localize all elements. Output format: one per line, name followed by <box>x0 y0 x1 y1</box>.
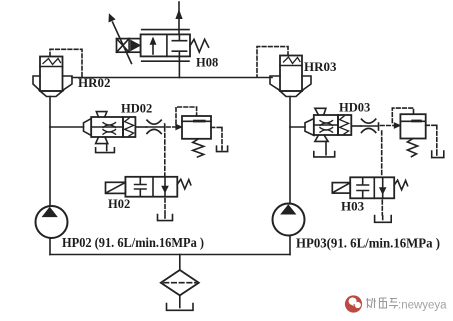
dashed pilot wire to relief box <box>167 126 177 128</box>
HD03 upper orifice arcs <box>320 121 333 126</box>
main tank <box>167 304 194 311</box>
relief valve HR03 pilot dashed line <box>257 47 288 77</box>
relief valve box (left circuit) <box>182 116 211 139</box>
svg-text:HD03: HD03 <box>339 101 370 115</box>
relief box drain dashed to tank <box>211 127 222 147</box>
relief valve box (right circuit) <box>400 114 425 138</box>
flow control HD03 body <box>314 115 338 135</box>
svg-text:H03: H03 <box>341 199 365 214</box>
HR02 spring chamber divider <box>40 66 63 68</box>
HD03 top lug <box>315 108 326 115</box>
H02 left position closed ports <box>135 177 146 197</box>
HR02 right wing <box>63 76 73 91</box>
wire branch to HD02 <box>50 126 84 128</box>
HR03 outlet funnel <box>280 91 302 97</box>
bottom rail wire <box>50 254 290 256</box>
HD03 bottom lug <box>315 135 328 141</box>
HD03 drain wire <box>325 141 327 154</box>
valve H08 right position closed port top <box>172 34 186 40</box>
dashed wire down to H02 <box>164 134 166 177</box>
HD02 bottom lug <box>96 137 108 144</box>
valve H08 left position flow arrow <box>152 41 154 54</box>
relief box right spring <box>407 139 417 157</box>
H02 drain dashed <box>164 199 166 214</box>
wire HD02 to throttle <box>135 126 146 128</box>
wire H08 inlet vertical <box>178 2 180 34</box>
junction tick node <box>164 124 166 131</box>
wire branch to HD03 <box>290 126 305 128</box>
svg-text::newyeya: :newyeya <box>398 300 447 312</box>
valve H08 body <box>141 34 190 56</box>
filter <box>161 270 199 295</box>
throttle orifice right <box>361 125 378 127</box>
svg-text:H08: H08 <box>196 56 218 70</box>
relief box right drain dashed to tank <box>426 125 437 149</box>
small tank (left relief box) <box>217 146 228 151</box>
H03 tank <box>375 216 392 223</box>
HD02 upper orifice arcs <box>103 123 116 128</box>
junction tick node right <box>378 123 380 130</box>
solenoid of H08 <box>117 39 141 53</box>
wire HD03 to throttle <box>351 125 361 127</box>
svg-text:H02: H02 <box>108 197 130 211</box>
HR03 left wing <box>270 76 280 91</box>
flow control HD02 inlet cone <box>84 119 92 136</box>
top rail wire <box>72 77 272 79</box>
svg-text:HR02: HR02 <box>78 75 111 90</box>
proportional adjust arrow on H08 solenoid <box>113 22 132 64</box>
HD02 lower orifice arcs <box>103 130 116 135</box>
valve H03 body <box>350 177 394 198</box>
HD03 drain tank <box>314 152 335 157</box>
flow control HD02 body <box>91 117 123 137</box>
dashed pilot wire to relief box right <box>381 125 395 127</box>
H03 drain dashed <box>381 200 383 215</box>
left rail wire down from HR02 <box>49 97 51 207</box>
wire pump HP03 to bottom rail <box>289 236 291 255</box>
HR02 outlet funnel <box>40 91 63 97</box>
solenoid of H03 <box>332 183 350 194</box>
relief box spring <box>193 139 204 157</box>
valve H08 right position closed port bottom <box>172 51 186 56</box>
HD03 spring section <box>338 115 351 135</box>
spring of H08 <box>190 39 209 52</box>
HR03 spring <box>284 57 301 64</box>
svg-text:HR03: HR03 <box>304 59 337 74</box>
H02 right position flow path <box>164 177 166 197</box>
wire filter to tank <box>179 295 181 307</box>
dashed wire down to H03 <box>381 131 383 177</box>
HD02 spring section <box>123 117 135 137</box>
valve H02 body <box>125 177 177 197</box>
HR02 left wing <box>33 76 40 91</box>
HD02 drain wire <box>106 144 108 151</box>
relief box pilot loop dashed <box>176 107 197 124</box>
wire pump HP02 to bottom rail <box>49 238 51 255</box>
relief valve HR03 body <box>280 56 302 92</box>
relief valve HR02 body <box>40 57 63 92</box>
solenoid H08 pilot triangle <box>131 40 141 50</box>
relief box right pilot loop dashed <box>392 108 413 122</box>
solenoid of H02 <box>106 182 126 193</box>
HD03 lower orifice arcs <box>320 128 333 133</box>
HD02 drain tank <box>96 148 115 153</box>
right rail wire down from HR03 <box>289 97 291 204</box>
HR02 spring <box>43 59 61 65</box>
watermark wechat icon <box>345 295 362 312</box>
spring of H03 <box>394 180 407 190</box>
svg-text:HP03(91. 6L/min.16MPa ): HP03(91. 6L/min.16MPa ) <box>296 236 440 251</box>
HD02 top lug <box>96 112 107 117</box>
H02 tank <box>158 215 173 221</box>
valve U-H08 proportional line top <box>142 29 189 31</box>
svg-text:HD02: HD02 <box>121 102 152 116</box>
throttle orifice left <box>147 126 165 128</box>
svg-text:HP02 (91. 6L/min.16MPa ): HP02 (91. 6L/min.16MPa ) <box>62 235 204 250</box>
HR03 right wing <box>302 76 311 91</box>
flow control HD03 inlet cone <box>305 119 314 136</box>
relief valve HR02 pilot dashed line <box>50 49 82 77</box>
H03 left position closed ports <box>357 177 369 198</box>
flow arrow on H08 inlet <box>176 11 182 19</box>
valve U-H08 proportional line bottom <box>142 60 189 62</box>
valve H08 position divider <box>166 34 168 56</box>
pump HP03 <box>273 204 305 236</box>
watermark text 微信号:newyeya <box>366 298 398 309</box>
wire H08 outlet to top rail <box>178 56 180 77</box>
H03 right position flow path <box>382 177 384 198</box>
pump HP02 <box>36 206 68 238</box>
wire rail to filter <box>179 255 181 271</box>
spring of H02 <box>177 179 191 189</box>
small tank (right relief box) <box>432 151 444 158</box>
